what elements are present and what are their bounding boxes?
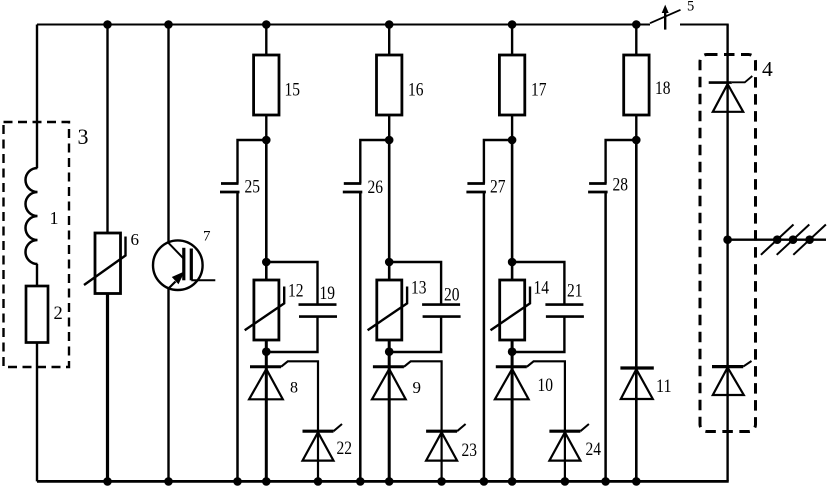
node bottom bus / diode 24 xyxy=(561,477,570,486)
wire xyxy=(512,262,564,305)
svg-text:13: 13 xyxy=(411,278,427,299)
node top bus / transistor 7 xyxy=(164,20,173,29)
wire xyxy=(389,317,441,352)
wire xyxy=(564,432,566,481)
resistor R2 (2) xyxy=(26,286,48,343)
wire xyxy=(511,368,514,481)
node top bus / varistor 6 xyxy=(103,20,112,29)
svg-text:14: 14 xyxy=(534,278,550,299)
svg-text:28: 28 xyxy=(613,175,629,196)
wire xyxy=(265,140,268,262)
diode 24 xyxy=(549,430,580,433)
wire xyxy=(606,140,637,184)
svg-text:10: 10 xyxy=(538,375,554,396)
resistor 17 xyxy=(499,55,524,115)
wire xyxy=(511,262,514,280)
diode 22 xyxy=(303,430,334,433)
node bottom bus / column 3 xyxy=(508,477,517,486)
wire xyxy=(604,192,607,481)
svg-text:23: 23 xyxy=(462,440,478,461)
thermistor 14 xyxy=(500,280,525,340)
wire xyxy=(388,140,391,262)
svg-text:1: 1 xyxy=(50,208,59,228)
capacitor 19 xyxy=(299,303,337,306)
svg-text:9: 9 xyxy=(413,378,422,397)
svg-text:19: 19 xyxy=(320,283,336,304)
svg-text:16: 16 xyxy=(408,80,424,101)
svg-text:4: 4 xyxy=(762,57,773,81)
switch 5 actuation arrow xyxy=(664,12,666,30)
node bottom bus / capacitor 28 xyxy=(601,477,610,486)
wire top bus (left of switch) xyxy=(37,24,650,26)
diode 11 xyxy=(620,366,653,369)
wire xyxy=(317,432,319,481)
svg-text:2: 2 xyxy=(54,304,63,324)
wire xyxy=(36,264,38,286)
node J3 column 2 xyxy=(385,347,394,356)
diode 23 xyxy=(426,430,457,433)
node top bus / column 3 xyxy=(508,20,517,29)
diode bottom of box 4 xyxy=(712,365,743,368)
wire hook from diode cathode to lower diode xyxy=(527,361,565,431)
wire xyxy=(265,25,267,56)
node bottom bus / column 2 xyxy=(385,477,394,486)
node bottom bus / transistor 7 xyxy=(164,477,173,486)
wire xyxy=(265,340,268,367)
node bottom bus / capacitor 27 xyxy=(480,477,489,486)
node feeder tap phase a xyxy=(773,235,782,244)
svg-text:18: 18 xyxy=(655,78,671,99)
wire xyxy=(266,262,317,305)
wire xyxy=(167,288,169,482)
svg-text:21: 21 xyxy=(567,281,583,302)
wire xyxy=(167,25,169,243)
svg-text:20: 20 xyxy=(444,285,460,306)
wire xyxy=(635,140,638,368)
slash mark phase b xyxy=(777,225,810,255)
wire xyxy=(360,140,389,184)
svg-text:8: 8 xyxy=(290,380,298,397)
node J2 column 1 xyxy=(262,258,271,267)
svg-text:7: 7 xyxy=(203,229,211,245)
inductor L1 (1) xyxy=(26,168,38,264)
node bottom bus / column 4 xyxy=(632,477,641,486)
node J2 column 3 xyxy=(508,258,517,267)
diode 10 xyxy=(496,365,527,368)
wire xyxy=(106,25,108,234)
wire xyxy=(36,343,38,482)
node J1 column 2 xyxy=(385,136,394,145)
wire xyxy=(265,262,268,280)
node bottom bus / capacitor 26 xyxy=(356,477,365,486)
wire xyxy=(388,340,391,367)
capacitor 25 xyxy=(221,182,239,185)
wire xyxy=(236,192,239,481)
node J1 column 3 xyxy=(508,136,517,145)
thermistor 12 xyxy=(254,280,279,340)
svg-text:22: 22 xyxy=(337,438,353,459)
wire xyxy=(441,432,443,481)
resistor 18 xyxy=(624,55,649,115)
svg-text:12: 12 xyxy=(288,281,304,302)
wire xyxy=(635,25,637,56)
node bottom bus / diode 23 xyxy=(437,477,446,486)
wire bottom bus xyxy=(37,480,729,483)
wire xyxy=(106,294,109,482)
svg-text:24: 24 xyxy=(586,439,602,460)
wire xyxy=(511,140,514,262)
capacitor 26 xyxy=(344,182,362,185)
wire xyxy=(359,192,362,481)
node top bus / column 2 xyxy=(385,20,394,29)
svg-text:6: 6 xyxy=(131,230,140,249)
wire xyxy=(388,115,390,140)
wire xyxy=(36,25,38,169)
slash mark phase c xyxy=(793,225,826,255)
capacitor 27 xyxy=(467,182,485,185)
resistor 15 xyxy=(254,55,279,115)
diode top of box 4 xyxy=(709,81,732,84)
wire hook from diode cathode to lower diode xyxy=(404,361,442,431)
wire xyxy=(389,262,441,305)
node top bus / column 1 xyxy=(262,20,271,29)
svg-text:5: 5 xyxy=(687,0,694,15)
wire xyxy=(238,140,267,184)
wire xyxy=(265,368,268,481)
dashed enclosure box 3 xyxy=(4,122,70,367)
wire xyxy=(266,317,317,352)
switch 5 blade xyxy=(650,10,681,23)
wire xyxy=(635,369,638,481)
node feeder tap phase c xyxy=(805,235,814,244)
wire xyxy=(635,115,637,140)
transistor Q7 (7) xyxy=(153,240,215,290)
wire xyxy=(484,140,512,184)
node bottom bus / diode 22 xyxy=(314,477,323,486)
diode 8 xyxy=(250,365,281,368)
resistor 16 xyxy=(377,55,402,115)
node J3 column 1 xyxy=(262,347,271,356)
capacitor 21 xyxy=(545,303,583,306)
wire xyxy=(388,368,391,481)
node J1 column 4 xyxy=(632,136,641,145)
wire top bus (right of switch) xyxy=(680,24,729,26)
node bottom bus / column 1 xyxy=(262,477,271,486)
wire xyxy=(265,115,267,140)
wire xyxy=(511,25,513,56)
wire hook from diode cathode to lower diode xyxy=(281,361,318,431)
wire xyxy=(483,192,486,481)
node top bus / switch pivot xyxy=(632,20,641,29)
varistor RV 6 xyxy=(95,233,121,294)
node feeder tap phase b xyxy=(789,235,798,244)
thermistor 13 xyxy=(377,280,402,340)
slash mark phase a xyxy=(761,225,794,255)
node junction box 4 / feeder xyxy=(723,235,732,244)
node J1 column 1 xyxy=(262,136,271,145)
node bottom bus / varistor 6 xyxy=(103,477,112,486)
capacitor 28 xyxy=(589,182,607,185)
wire xyxy=(512,317,564,352)
wire xyxy=(388,25,390,56)
dashed enclosure box 4 xyxy=(700,55,756,432)
wire feeder line to the right xyxy=(728,238,826,240)
svg-text:25: 25 xyxy=(245,177,261,198)
node bottom bus / capacitor 25 xyxy=(233,477,242,486)
svg-text:26: 26 xyxy=(368,177,384,198)
svg-text:27: 27 xyxy=(490,177,506,198)
svg-text:15: 15 xyxy=(285,80,301,101)
diode 9 xyxy=(373,365,404,368)
node J2 column 2 xyxy=(385,258,394,267)
svg-text:17: 17 xyxy=(531,80,547,101)
wire xyxy=(511,340,514,367)
wire xyxy=(511,115,513,140)
svg-text:3: 3 xyxy=(78,124,89,149)
node J3 column 3 xyxy=(508,347,517,356)
svg-text:11: 11 xyxy=(656,376,672,397)
capacitor 20 xyxy=(422,303,460,306)
wire xyxy=(726,25,728,482)
wire xyxy=(388,262,391,280)
